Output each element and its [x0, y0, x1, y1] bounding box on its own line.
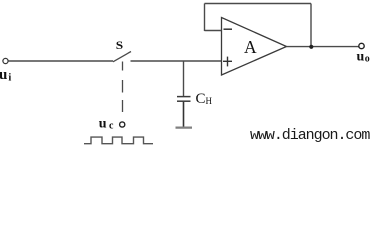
op-amp plus sign	[223, 60, 232, 62]
svg-text:www.diangon.com: www.diangon.com	[250, 127, 370, 144]
ground	[176, 126, 193, 128]
output wire	[287, 46, 360, 48]
capacitor branch wire bottom	[183, 102, 185, 127]
capacitor CH plates	[177, 96, 191, 98]
switch S arm	[113, 52, 131, 62]
wire switch to op-amp	[131, 60, 222, 62]
svg-text:uc: uc	[99, 116, 114, 131]
feedback wire right vertical	[310, 4, 312, 48]
svg-text:uo: uo	[357, 49, 370, 64]
wire input to switch	[8, 60, 113, 62]
op-amp A triangle	[222, 18, 287, 76]
uc pulse waveform	[84, 137, 153, 144]
input terminal circle (node ui)	[3, 58, 8, 63]
control terminal circle (node uc)	[120, 122, 125, 127]
svg-text:S: S	[116, 38, 124, 52]
svg-text:A: A	[244, 37, 257, 57]
svg-text:CH: CH	[196, 91, 213, 107]
switch control solid tick	[122, 62, 124, 71]
op-amp minus sign	[224, 28, 233, 30]
switch control dashed line	[122, 80, 124, 93]
junction dot	[309, 45, 313, 49]
output terminal circle (node uo)	[359, 43, 364, 48]
feedback wire top	[205, 3, 312, 5]
svg-text:ui: ui	[0, 67, 11, 84]
feedback wire left vertical	[204, 4, 206, 32]
inverting input wire	[205, 30, 222, 32]
capacitor branch wire top	[183, 61, 185, 96]
